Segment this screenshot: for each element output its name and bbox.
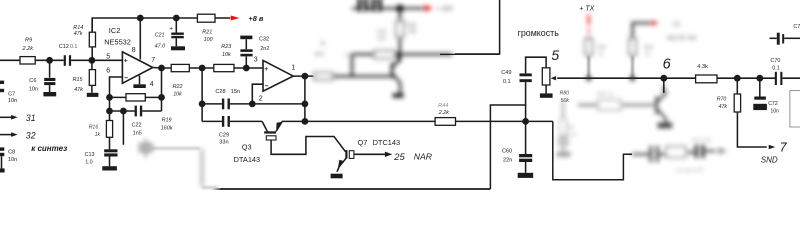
capacitor C60: [525, 121, 527, 154]
resistor R9: [20, 57, 35, 64]
svg-text:+: +: [124, 58, 128, 65]
capacitor C28: [222, 99, 224, 110]
svg-text:32: 32: [26, 131, 36, 141]
vertical output feedback: [304, 76, 306, 121]
capacitor C49: [520, 73, 532, 76]
svg-text:R27: R27: [315, 52, 325, 58]
capacitor C6: [49, 60, 51, 77]
resistor R70: [736, 78, 738, 94]
svg-text:ТХ: ТХ: [672, 22, 681, 29]
op-amp IC2 NE5532 triangle: [122, 52, 152, 84]
node junction R14/R15 divider: [89, 57, 96, 64]
pot wiper arrow: [551, 76, 556, 80]
node C21 tap: [173, 15, 180, 22]
node pin8 tap: [137, 15, 144, 22]
wire stub cut by white patch: [122, 111, 124, 145]
ghost erased wire to x202: [152, 147, 200, 149]
svg-text:0.1: 0.1: [503, 79, 511, 85]
node R70 tap: [734, 75, 741, 82]
svg-text:SND: SND: [761, 155, 778, 164]
node rail tap to RX stage: [660, 75, 667, 82]
node C72 tap: [756, 75, 763, 82]
svg-text:6: 6: [106, 67, 110, 74]
feedback resistor R18: [126, 94, 145, 101]
svg-text:C13: C13: [85, 152, 95, 158]
svg-text:100: 100: [377, 36, 386, 42]
svg-text:1k: 1k: [645, 52, 651, 58]
svg-text:1.0: 1.0: [85, 159, 93, 165]
svg-text:к синтез: к синтез: [31, 144, 67, 153]
wire: C12 to IC2 pin5: [71, 59, 122, 61]
svg-text:R51: R51: [566, 125, 575, 131]
svg-text:2n2: 2n2: [260, 46, 269, 52]
wire op-amp2 output: [293, 75, 313, 77]
sharp lead-out of blurred stage: [440, 53, 499, 55]
ground below C13: [102, 166, 117, 170]
white patch border right edge: [790, 91, 800, 127]
svg-text:8: 8: [132, 47, 136, 54]
node junction at C6 tap: [46, 57, 53, 64]
wire IC2 pin6 input: [110, 77, 123, 121]
svg-text:NAR: NAR: [414, 152, 432, 162]
svg-text:0.1: 0.1: [70, 44, 77, 50]
svg-text:C49: C49: [501, 70, 511, 76]
resistor R15: [91, 60, 93, 69]
node R22/R23 C-network tap: [199, 65, 206, 72]
resistor R16: [106, 121, 112, 138]
svg-text:47k: 47k: [74, 31, 83, 37]
svg-text:10n: 10n: [29, 86, 38, 92]
svg-text:C21: C21: [155, 32, 165, 38]
svg-text:R22: R22: [173, 84, 183, 90]
wire: R9 to C12 with C6 tap: [35, 59, 64, 61]
svg-text:Q3: Q3: [242, 143, 252, 152]
svg-text:10n: 10n: [8, 157, 17, 163]
wire C49/pot top tie: [526, 57, 547, 73]
resistor 4.3k: [696, 75, 717, 83]
svg-text:31: 31: [26, 113, 36, 123]
node C22 left: [106, 108, 113, 115]
ground below C60: [518, 173, 534, 178]
svg-text:NE5532: NE5532: [104, 38, 131, 47]
svg-text:1n5: 1n5: [133, 131, 142, 137]
svg-text:C32: C32: [259, 36, 269, 42]
svg-text:50k: 50k: [561, 98, 570, 104]
svg-text:−: −: [265, 83, 269, 90]
vertical x202 C28/C29 feed: [201, 68, 203, 121]
bottom long wire: [221, 188, 490, 190]
svg-text:10k: 10k: [222, 52, 231, 58]
node feedback right: [158, 94, 165, 101]
ground below C6: [43, 92, 56, 96]
svg-text:R9: R9: [25, 38, 32, 44]
ghost erased capacitor: [139, 139, 154, 159]
node pin2 on C28 row: [249, 101, 256, 108]
svg-text:−: −: [124, 75, 128, 82]
svg-text:DTC143: DTC143: [373, 138, 401, 147]
svg-text:R70: R70: [717, 97, 727, 103]
node pot bottom tap: [522, 118, 529, 125]
ground below pot: [540, 93, 553, 97]
svg-text:R55 1k: R55 1k: [597, 92, 614, 98]
blurred second mic amp stage: [314, 0, 453, 98]
IC2 pin4 ground stub: [139, 76, 141, 85]
wire R23 to node3: [234, 67, 263, 69]
svg-text:+ RX: + RX: [437, 6, 453, 13]
wire R22 to R23: [189, 67, 214, 69]
svg-text:1: 1: [291, 64, 295, 71]
ghost erased bottom wire start: [202, 186, 218, 188]
ground bar C72: [753, 104, 767, 110]
svg-text:C35: C35: [377, 30, 387, 36]
svg-text:100: 100: [204, 37, 213, 43]
svg-text:C60: C60: [502, 149, 512, 155]
wire: output arrow 31: [0, 116, 12, 118]
transistor Q3 DTA143: [262, 121, 267, 131]
svg-text:0.1: 0.1: [772, 65, 780, 71]
transistor Q7 DTC143: [345, 150, 347, 158]
wire from blurred stage up to crop edge: [455, 0, 500, 54]
svg-text:47k: 47k: [719, 104, 728, 110]
svg-text:R21: R21: [202, 30, 212, 36]
node C28 left: [199, 101, 206, 108]
svg-text:33n: 33n: [219, 139, 228, 145]
svg-text:5: 5: [106, 53, 110, 60]
svg-text:2.2k: 2.2k: [22, 46, 35, 52]
resistor R23: [214, 64, 234, 71]
svg-text:C72: C72: [768, 101, 778, 107]
ground below Q7: [331, 174, 343, 179]
capacitor C13: [109, 137, 111, 149]
svg-text:громкость: громкость: [518, 28, 560, 38]
node op-amp2 output: [302, 73, 309, 80]
svg-text:C22: C22: [132, 123, 142, 129]
capacitor C72: [759, 78, 761, 96]
vertical output to C22 row: [161, 68, 163, 111]
svg-text:+: +: [264, 66, 268, 73]
svg-text:6: 6: [663, 56, 672, 72]
svg-text:C70: C70: [771, 58, 781, 64]
svg-text:10n: 10n: [770, 108, 779, 114]
wire: output arrow 32: [0, 134, 12, 136]
svg-text:R52 C62: R52 C62: [692, 138, 712, 144]
capacitor C8 at left edge: [0, 147, 4, 150]
node Q3 row to R44 row: [302, 118, 309, 125]
blurred TX mute circuit: [585, 15, 697, 81]
node feedback left: [106, 94, 113, 101]
svg-text:MUTE RX: MUTE RX: [667, 35, 697, 42]
svg-text:3: 3: [254, 56, 258, 63]
svg-text:DTA143: DTA143: [234, 155, 261, 164]
svg-text:5: 5: [551, 47, 559, 63]
resistor R21: [197, 14, 215, 22]
svg-text:R19: R19: [162, 118, 172, 124]
capacitor C12: [64, 55, 66, 66]
svg-text:160k: 160k: [161, 125, 173, 131]
svg-text:R16: R16: [89, 125, 99, 131]
svg-text:+8 в: +8 в: [248, 14, 263, 23]
svg-text:C33: C33: [345, 53, 355, 59]
svg-text:25: 25: [393, 151, 405, 162]
svg-text:+ TX: + TX: [579, 5, 594, 12]
svg-text:22n: 22n: [503, 158, 512, 164]
svg-text:4: 4: [150, 81, 154, 88]
capacitor C70: [775, 72, 777, 85]
svg-text:2.2k: 2.2k: [438, 110, 449, 116]
svg-text:C12: C12: [59, 44, 69, 50]
svg-text:1k: 1k: [320, 41, 326, 47]
svg-text:R56: R56: [597, 45, 606, 51]
node output feedback on C28 row: [302, 101, 309, 108]
wire Q3 base to Q7: [271, 137, 346, 155]
capacitor C21 electrolytic: [175, 18, 177, 33]
wire bypass corner to pot top: [490, 105, 525, 189]
wire to +8V arrow: [215, 17, 230, 19]
ground below C8: [0, 168, 5, 172]
svg-text:C7: C7: [8, 92, 15, 98]
capacitor C22: [135, 106, 137, 117]
wire: audio input line to R9: [0, 59, 20, 61]
wires blurred resistors to rail: [589, 56, 633, 78]
wire IC2 output: [153, 67, 171, 70]
svg-text:C8: C8: [8, 150, 15, 156]
svg-text:R23: R23: [221, 44, 231, 50]
svg-text:1k: 1k: [95, 132, 101, 138]
resistor R44: [435, 118, 455, 126]
wire op-amp2 pin2 input: [252, 84, 263, 104]
node C22 tap to erased network: [120, 108, 127, 115]
capacitor C7 at left edge: [0, 81, 4, 84]
capacitor C32 to top ground: [245, 56, 247, 68]
op-amp 2 triangle: [263, 60, 293, 91]
potentiometer R80 50k: [542, 68, 550, 85]
capacitor C76 top right: [770, 37, 777, 39]
svg-text:7: 7: [151, 57, 155, 64]
wire R70 to SND arrow: [737, 112, 766, 147]
svg-text:IC2: IC2: [109, 26, 121, 35]
resistor R22: [171, 64, 189, 71]
svg-text:Q7: Q7: [358, 138, 368, 147]
svg-text:R44: R44: [438, 103, 448, 109]
wire: +8V supply rail: [92, 18, 197, 32]
node IC2 output: [158, 65, 165, 72]
svg-text:R58: R58: [644, 45, 653, 51]
svg-text:C6: C6: [29, 78, 36, 84]
svg-text:+: +: [169, 26, 173, 33]
svg-text:C29: C29: [219, 133, 229, 139]
svg-text:на выход: на выход: [676, 166, 704, 174]
svg-text:10k: 10k: [408, 29, 417, 35]
wire corner down to RX stage: [553, 121, 632, 179]
wire rail 6 from wiper to right edge: [557, 77, 800, 79]
svg-text:4.3k: 4.3k: [697, 64, 708, 70]
svg-text:7: 7: [780, 140, 788, 154]
svg-text:R15: R15: [73, 77, 84, 83]
svg-text:R80: R80: [560, 90, 570, 96]
svg-text:47.0: 47.0: [155, 44, 166, 50]
ghost erased vertical wire: [201, 149, 204, 187]
capacitor C29: [222, 116, 224, 127]
svg-text:2: 2: [259, 96, 263, 103]
svg-text:5.1k: 5.1k: [567, 132, 577, 138]
resistor R14: [91, 18, 93, 32]
svg-text:47k: 47k: [74, 87, 83, 93]
wire down into blurred stage: [663, 78, 665, 93]
wire IC2 pin 8: [139, 18, 141, 60]
svg-text:15n: 15n: [231, 89, 240, 95]
node op-amp2 +input: [243, 65, 250, 72]
ground bar below C21: [171, 46, 185, 50]
svg-text:C28: C28: [215, 89, 225, 95]
ground below R15: [87, 93, 99, 97]
red arrow +8V: [231, 16, 240, 21]
svg-text:1k: 1k: [598, 52, 604, 58]
blurred RX audio stage: [557, 86, 727, 174]
svg-text:10n: 10n: [8, 98, 17, 104]
svg-text:10k: 10k: [173, 91, 182, 97]
wire feedback row: [110, 96, 162, 98]
svg-text:C76: C76: [793, 24, 800, 30]
wire long row to volume pot: [305, 120, 553, 122]
